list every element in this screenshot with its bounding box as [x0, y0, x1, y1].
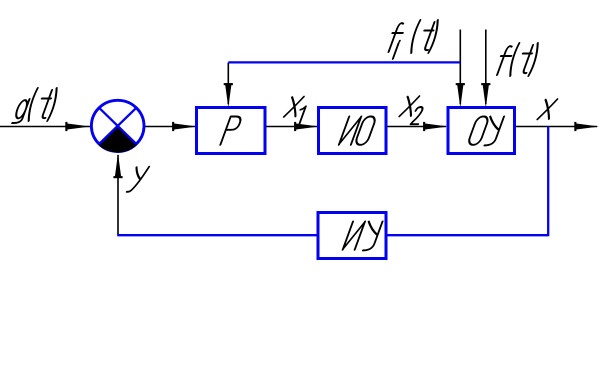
label x1	[281, 97, 309, 125]
block IU rectangle	[318, 213, 386, 259]
wire: summing junction to block P	[145, 126, 195, 128]
block P rectangle	[197, 108, 266, 154]
label f_i (t)	[383, 20, 441, 59]
wire: output x line	[515, 126, 597, 128]
wire: feedback drop from output	[547, 127, 549, 237]
wire: disturbance f(t) vertical	[485, 30, 487, 105]
block IO letters	[339, 117, 377, 145]
arrow down into P	[224, 83, 233, 108]
block OU rectangle	[448, 108, 515, 154]
label y feedback	[127, 167, 149, 192]
wire: drop into P from top feedback	[227, 63, 229, 105]
block OU letters	[467, 117, 504, 146]
arrow into block OU (right)	[423, 122, 448, 131]
arrow up into summing junction	[113, 154, 122, 179]
arrow down into OU (f)	[481, 83, 490, 108]
wire: P to IO	[266, 126, 317, 128]
arrow down into OU (f_i)	[456, 83, 465, 108]
label x output	[537, 99, 557, 119]
arrow into block IO (right)	[294, 122, 319, 131]
block IU letters	[342, 222, 382, 251]
wire: disturbance f_i(t) vertical	[459, 30, 461, 105]
summing junction circle	[91, 100, 144, 152]
label x2	[397, 96, 429, 124]
arrow output tip (right)	[574, 122, 599, 131]
block IO rectangle	[319, 108, 387, 154]
wire: feedback bottom left segment	[117, 234, 316, 236]
wire: IO to OU	[387, 126, 446, 128]
label f (t)	[494, 43, 542, 76]
arrow into summing junction (right)	[65, 122, 90, 131]
label g(t)	[12, 88, 60, 123]
wire: input g(t) line	[0, 126, 90, 128]
wire: feedback vertical up to summing junction	[117, 155, 119, 235]
wire: feedback bottom right segment	[387, 234, 548, 236]
arrow into block P (right)	[172, 122, 197, 131]
block P letter	[220, 117, 242, 145]
wire: top blue line from above P to f_i line	[228, 61, 460, 63]
